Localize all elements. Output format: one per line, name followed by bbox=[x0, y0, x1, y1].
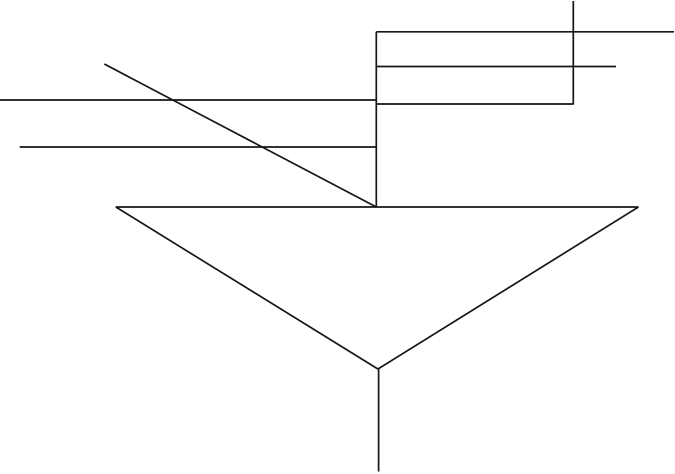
funnel triangle top edge bbox=[116, 206, 639, 208]
wire horizontal left (y=147) bbox=[20, 146, 377, 148]
funnel triangle left edge bbox=[116, 207, 378, 369]
wire vertical bus (x=376) bbox=[375, 32, 377, 207]
wire vertical output (below apex) bbox=[378, 369, 380, 472]
wire horizontal top (y=32) bbox=[376, 31, 674, 33]
wire horizontal lower (y=104) bbox=[376, 103, 573, 105]
wire diagonal bbox=[104, 64, 376, 207]
wire horizontal middle (y=66) bbox=[376, 66, 616, 68]
wire horizontal long left (y=100) bbox=[0, 99, 376, 101]
wire vertical stub top (x=573) bbox=[572, 1, 574, 105]
funnel triangle right edge bbox=[378, 207, 639, 369]
